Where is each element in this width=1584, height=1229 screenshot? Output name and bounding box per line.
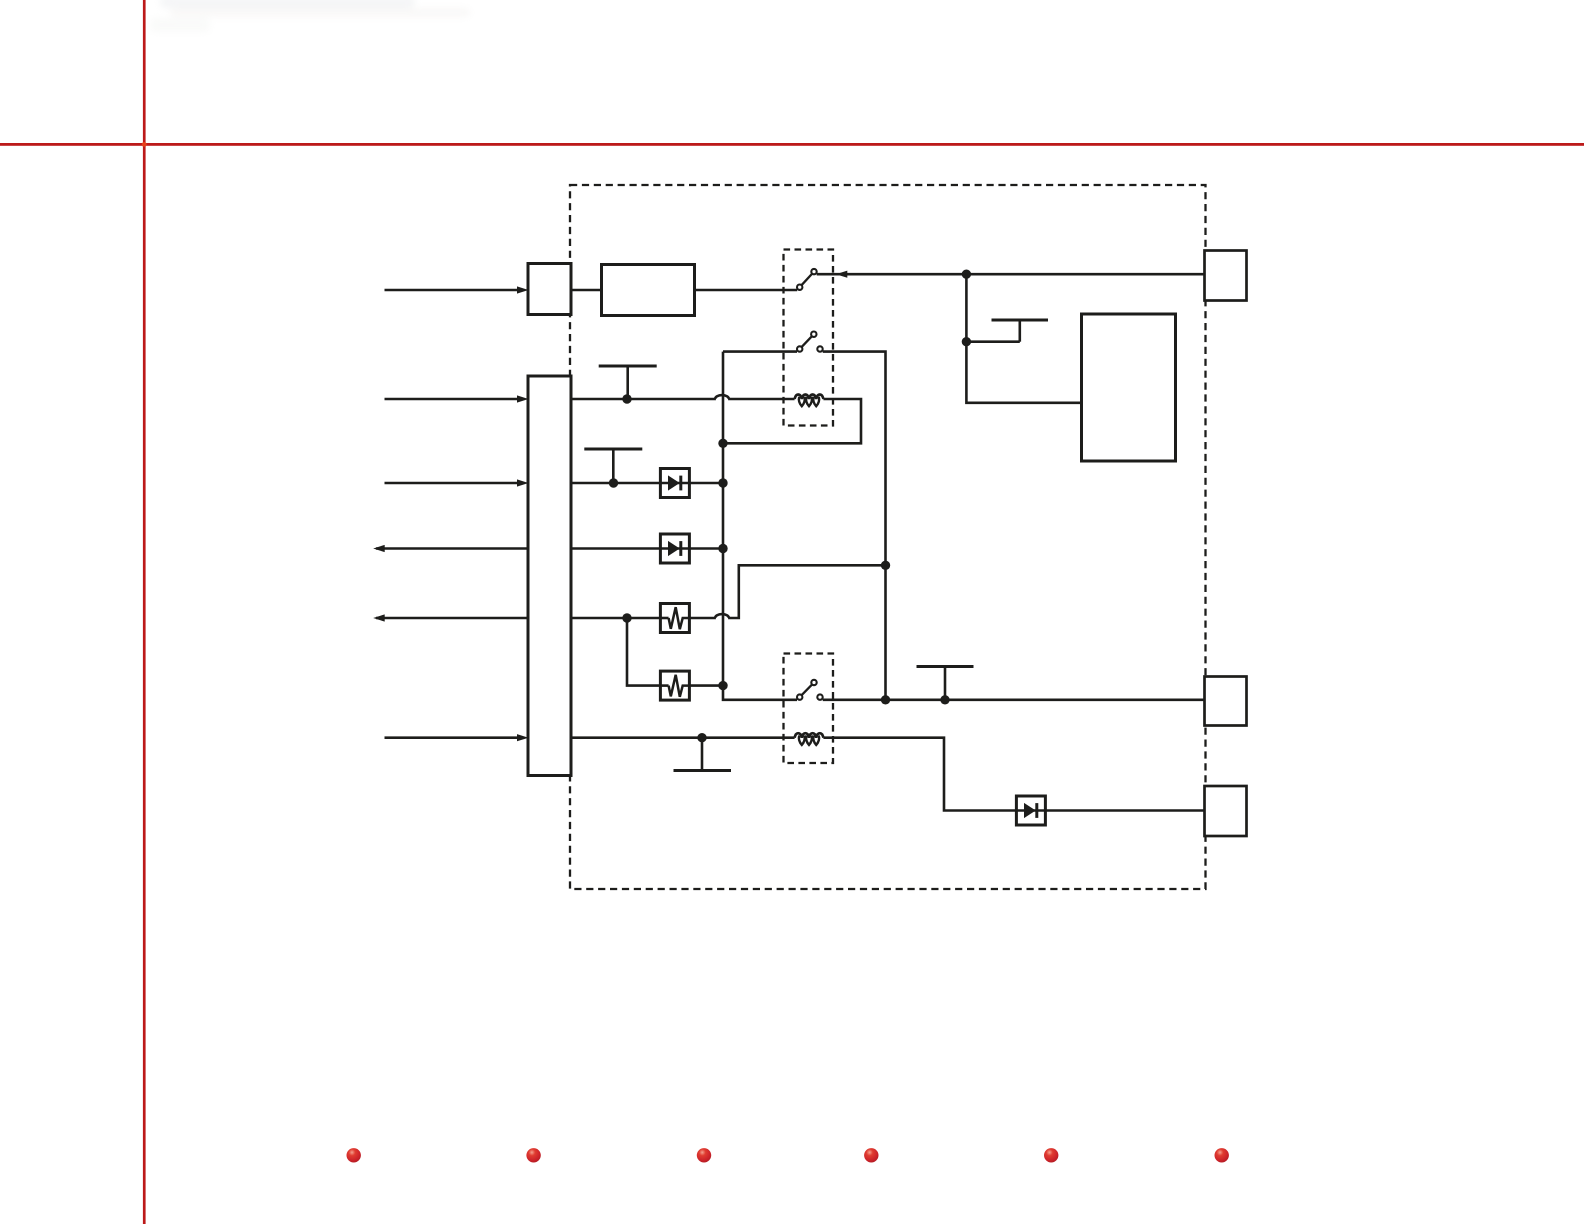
arrow into contact a (836, 271, 848, 278)
wire input line 1 (385, 289, 518, 292)
wire K1 coil return (723, 399, 861, 443)
arrow into J2 line 2 (517, 395, 529, 402)
wire R1 up-over (728, 565, 885, 618)
relay K2 dashed outline (784, 654, 834, 764)
node power tap junction (940, 695, 949, 704)
power tap P4 (917, 667, 974, 700)
node coil return on bus (718, 439, 727, 448)
faint ghosted header remnants (150, 0, 470, 32)
node ground tap (697, 733, 706, 742)
diode D2 (660, 534, 689, 563)
node K2 feed junction (881, 695, 890, 704)
node D2 bus junction (718, 544, 727, 553)
wire F1 to relay K1 contact (695, 289, 798, 292)
relay K1 contact b (switch 2) (797, 332, 823, 352)
node line2 tap (622, 394, 631, 403)
wire to contact b left (723, 350, 797, 353)
relay K2 contact (797, 680, 823, 700)
diode D1 (660, 469, 689, 498)
relay K1 coil (795, 395, 824, 407)
power tap P2 (599, 366, 657, 399)
wire line 5 to resistor R1 (571, 617, 660, 620)
wire K2 contact to CN2 (823, 698, 1205, 701)
arrow out line 4 (373, 545, 385, 552)
wire input line 6 (385, 736, 518, 739)
power tap P3 (584, 449, 642, 483)
wire input line 2 (385, 398, 518, 401)
node bus bottom junction (718, 681, 727, 690)
ground symbol (674, 738, 732, 771)
connector CN3 (1205, 786, 1247, 836)
node D1 bus junction (718, 478, 727, 487)
node A junction (962, 270, 971, 279)
power tap P1 (stepped) (966, 320, 1048, 342)
wire R2 to bus end (689, 684, 723, 687)
wire hop to coil K1 (728, 398, 795, 401)
wire line 2 inside (571, 398, 716, 401)
wire contact b right (823, 352, 886, 566)
relay K2 coil (795, 733, 824, 745)
wire hop over bus (line 5) (715, 614, 729, 618)
wire line 3 to diode D1 (571, 482, 660, 485)
arrow out line 5 (373, 614, 385, 621)
wire node B to U1 (966, 342, 1081, 403)
wire line 4 to diode D2 (571, 547, 660, 550)
wire output line 4 (376, 547, 528, 550)
node feed junction (881, 561, 890, 570)
relay K1 dashed outline (784, 250, 834, 426)
wire K2 coil to diode D3 (823, 738, 1016, 811)
wire bus to relay K2 (884, 565, 887, 700)
input interface box J1 (528, 264, 571, 315)
wire input line 3 (385, 482, 518, 485)
wire D3 to CN3 (1045, 809, 1204, 812)
wire J1 to F1 (571, 289, 602, 292)
arrow into J1 line 1 (517, 286, 529, 293)
wire D1 to bus (689, 482, 723, 485)
vertical bus wire (722, 352, 725, 686)
wire line 6 inside (571, 736, 795, 739)
relay K1 contact a (switch 1) (797, 269, 817, 290)
terminal block J2 (528, 376, 571, 776)
control circuit block U1 (1082, 314, 1176, 461)
wire hop over bus (line 2) (715, 395, 729, 399)
wire R1 to hop (689, 617, 716, 620)
main unit dashed enclosure (570, 185, 1206, 889)
connector CN1 (1205, 251, 1247, 301)
wire D2 to bus (689, 547, 723, 550)
node B junction (962, 337, 971, 346)
wire node A down (965, 274, 968, 342)
arrow into J2 line 6 (517, 734, 529, 741)
diode D3 (1016, 796, 1045, 825)
wire branch to resistor R2 (627, 618, 660, 686)
arrow into J2 line 3 (517, 479, 529, 486)
filter module F1 (602, 265, 695, 316)
node line3 tap (609, 478, 618, 487)
resistor R2 (660, 671, 689, 700)
wire output line 5 (376, 617, 528, 620)
wire contact a to CN1 (817, 273, 1205, 276)
wire jog to relay K2 contact (723, 686, 797, 700)
node line5 branch (622, 613, 631, 622)
connector CN2 (1205, 677, 1247, 726)
resistor R1 (660, 604, 689, 633)
